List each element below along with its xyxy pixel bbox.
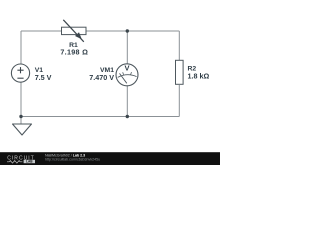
wire xyxy=(86,30,179,32)
voltage source V1 xyxy=(11,64,29,82)
resistor R1 xyxy=(62,20,87,42)
CircuitLab logo LAB badge xyxy=(24,160,35,163)
svg-text:V: V xyxy=(124,64,129,73)
node junction top (VM1 tap) xyxy=(126,29,129,32)
svg-text:1.8 kΩ: 1.8 kΩ xyxy=(188,71,210,80)
footer bar xyxy=(0,152,220,165)
svg-text:7.470 V: 7.470 V xyxy=(89,73,114,82)
node junction bottom (VM1 tap) xyxy=(126,115,129,118)
svg-text:LAB: LAB xyxy=(26,160,33,164)
wire xyxy=(21,116,179,118)
node junction ground xyxy=(19,115,22,118)
svg-text:7.5 V: 7.5 V xyxy=(35,73,52,82)
wire xyxy=(126,86,128,117)
wire xyxy=(20,82,22,116)
ground xyxy=(13,124,32,135)
wire xyxy=(178,31,180,61)
voltmeter VM1 xyxy=(116,64,138,86)
svg-text:7.198 Ω: 7.198 Ω xyxy=(60,48,88,57)
CircuitLab logo resistor zigzag xyxy=(7,161,22,164)
svg-text:http://circuitlab.com/c6sb3nvk: http://circuitlab.com/c6sb3nvk245u xyxy=(45,157,100,161)
wire xyxy=(178,85,180,117)
wire xyxy=(126,31,128,64)
resistor R2 xyxy=(176,60,184,84)
wire xyxy=(20,31,22,64)
wire xyxy=(20,117,22,125)
wire xyxy=(21,30,62,32)
